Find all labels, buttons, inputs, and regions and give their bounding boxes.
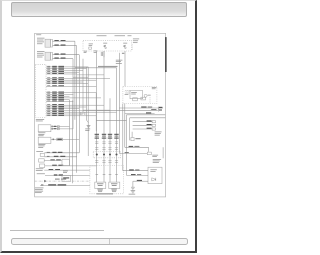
ECM pin row 20 wire — [46, 109, 110, 111]
label wire S1 pin1 — [54, 39, 58, 42]
relay RLY2 box — [38, 137, 51, 143]
ground G101 lead — [86, 120, 88, 123]
wire S2 pin1 — [53, 53, 80, 55]
ECM pin row 18 labels — [47, 105, 50, 108]
connector pair 3b — [108, 147, 111, 149]
connector E1 label — [36, 33, 41, 36]
relay RLY1 wire B — [51, 128, 73, 130]
ECM pin row 16 wire — [46, 100, 74, 102]
wire into valve B — [127, 174, 149, 176]
ECM pin row 15 wire — [46, 98, 70, 100]
fuse F1 — [103, 42, 107, 45]
wire trunk V1 — [74, 41, 76, 120]
injector feed V inj3 — [109, 98, 111, 182]
right box inner — [130, 117, 166, 119]
ECM pin row 5 labels — [47, 72, 50, 75]
junction label C101 — [116, 59, 123, 62]
check valve text — [150, 168, 156, 171]
wire trunk V4 — [72, 58, 74, 128]
injector wire label 2 — [102, 134, 106, 135]
right box row 3 — [133, 128, 153, 130]
splice band — [98, 66, 118, 67]
splice dot 2 — [103, 153, 105, 155]
wire to C567 A — [119, 107, 163, 109]
dash-dot row — [35, 180, 90, 182]
fuel pump box — [130, 90, 143, 98]
ECM pin row 9 labels — [47, 81, 50, 84]
fuel pump box label — [152, 86, 157, 89]
wire cross H4 — [83, 109, 110, 111]
pin tag a — [80, 112, 83, 115]
pump symbol — [144, 94, 147, 97]
connector pair 2b — [102, 147, 105, 149]
drop V x122 — [122, 103, 124, 170]
ECM pin row 16 labels — [47, 99, 50, 102]
check valve symbol — [152, 178, 156, 181]
ECM pin row 10 labels — [47, 84, 50, 87]
component K3 wire — [44, 169, 90, 171]
ECM pin row 2 labels — [47, 66, 50, 69]
connector pair 4b — [115, 147, 118, 149]
ECM pin row 10 wire — [46, 85, 96, 87]
right box outer — [127, 114, 166, 116]
ECM pin row 1 labels — [47, 65, 50, 68]
injector INJ34 symbol — [112, 188, 117, 191]
wire into valve A — [123, 169, 148, 171]
component M1 label — [63, 169, 68, 172]
component K2 wire — [45, 165, 97, 167]
ECM pin row 7 labels — [47, 78, 50, 81]
label wire S2 pin2 — [54, 56, 58, 59]
wire trunk V8 — [69, 99, 71, 165]
component M1 box — [62, 159, 69, 165]
wire mid right A — [125, 146, 149, 148]
component K1 wire — [44, 159, 62, 161]
wire mid right B — [119, 152, 147, 154]
wire trunk V6 — [85, 67, 87, 120]
row PNK wire — [37, 172, 45, 175]
bottom right label — [153, 158, 161, 161]
ECM dashed box — [35, 63, 46, 65]
injector feed V inj1 — [96, 51, 98, 182]
injector feed V inj4 — [116, 68, 118, 182]
right box row 2 — [133, 124, 153, 126]
relay RLY1 wire A — [51, 125, 70, 127]
diagram frame — [35, 33, 166, 197]
bottom scrollbar track — [11, 238, 189, 246]
right box row 1 — [133, 120, 153, 122]
drop V x124 — [124, 103, 126, 147]
pump sub box 2 — [141, 97, 146, 100]
sensor S1 label — [37, 37, 45, 40]
pump dashed inner leader — [149, 97, 151, 103]
injector wire label 4 — [114, 134, 118, 135]
injector minus tick 4 — [115, 173, 118, 175]
sensor S2 connector — [45, 52, 51, 60]
connector pair 4c — [115, 160, 118, 162]
injector minus tick 3 — [109, 173, 112, 175]
ECM pin row 17 wire — [46, 104, 104, 106]
fuse drop V f2 — [124, 51, 126, 86]
connector pair 1c — [95, 160, 98, 162]
ground G202 label — [129, 193, 136, 196]
wire trunk V3 — [78, 54, 80, 152]
ECM pin row 21 wire — [46, 111, 117, 113]
ECM pin row 13 labels — [47, 94, 50, 97]
wire to C567 C — [125, 112, 155, 114]
label under fuse F1 — [103, 51, 105, 57]
wire trunk V9 — [72, 100, 74, 183]
wire S2 pin2 — [53, 57, 74, 59]
ECM pin row 5 wire — [46, 73, 77, 75]
ECM pin row 14 labels — [47, 96, 50, 99]
sensor S1 connector — [45, 39, 51, 47]
ECM pin row 19 wire — [46, 107, 79, 109]
wire trunk V7 — [87, 67, 89, 156]
injector INJ12 box — [95, 182, 106, 188]
wire trunk V2 — [76, 45, 78, 172]
label wire S2 pin1 — [54, 52, 58, 55]
ECM pin row 20 labels — [47, 108, 50, 111]
pump coil symbol — [125, 89, 131, 92]
ECM pin row 9 wire — [46, 82, 88, 84]
wire under valve — [133, 180, 148, 182]
notes text block — [35, 186, 44, 189]
splice strip dashed — [93, 151, 121, 157]
row bottom wire — [40, 184, 90, 186]
switch SW1 label — [36, 150, 43, 153]
right V line — [162, 147, 164, 158]
injector wire label 1 — [95, 134, 99, 135]
wire S1 pin2 — [53, 44, 77, 46]
relay RLY1 box — [38, 125, 51, 132]
ECM pin row 12 wire — [46, 93, 74, 95]
wire cross H3 — [73, 76, 88, 78]
wire S1 pin1 — [53, 40, 75, 42]
ECM pin row 19 labels — [47, 106, 50, 109]
connector pair 2c — [102, 160, 105, 162]
ECM pin row 4 labels — [47, 70, 50, 73]
ECM pin row 4 wire — [46, 71, 79, 73]
ECM pin row 11 labels — [47, 90, 50, 93]
switch SW1 box — [40, 153, 44, 156]
header toolbar bar — [11, 2, 187, 17]
wire trunk V10 — [95, 92, 97, 131]
component K1 — [39, 159, 45, 162]
horizontal rule — [10, 230, 104, 231]
relay RLY1 label — [38, 131, 45, 134]
injector caption — [97, 192, 114, 195]
ECM pin row 14 wire — [46, 97, 101, 99]
ground G202 — [132, 188, 134, 190]
wire to C567 B — [97, 109, 158, 111]
switch SW1 wire B — [44, 156, 76, 158]
splice dot 3 — [109, 153, 111, 155]
injector minus tick 2 — [103, 173, 106, 175]
ECM pin row 3 labels — [47, 68, 50, 71]
injector wire label 3 — [108, 134, 112, 135]
injector dashed box — [90, 165, 123, 193]
fuse box label leader — [131, 44, 133, 51]
ground G101 — [87, 124, 91, 126]
wire cross H2 — [77, 74, 104, 76]
ECM pin row 7 wire — [46, 79, 96, 81]
label under fusebox mid — [94, 49, 98, 52]
component K2 — [40, 164, 45, 167]
injector INJ34 box — [109, 182, 120, 188]
ECM label — [36, 118, 44, 121]
fuel pump dashed box — [123, 86, 157, 103]
pin tag b — [84, 112, 87, 115]
ground G101 label — [85, 127, 90, 130]
check valve box — [148, 167, 162, 183]
right label mid — [155, 130, 162, 133]
injector feed V inj2 — [103, 51, 105, 182]
ECM pin row 12 labels — [47, 92, 50, 95]
ECM pin row 6 labels — [47, 76, 50, 79]
ECM pin row 3 wire — [46, 69, 83, 71]
relay RLY2 wire — [51, 138, 79, 140]
ECM pin row 2 wire — [46, 67, 86, 69]
pump sub box 1 — [133, 98, 138, 101]
fuse box label — [133, 37, 139, 40]
connector pair 1b — [95, 147, 98, 149]
connector pair 3a — [108, 141, 111, 143]
connector pair 1a — [95, 141, 98, 143]
label HOT AT ALL TIMES — [97, 34, 107, 37]
connector pair 3c — [108, 160, 111, 162]
fuse F2 — [123, 42, 127, 45]
wiring diagram — [33, 33, 168, 199]
ECM pin row 17 labels — [47, 103, 50, 106]
ECM pin row 1 wire — [46, 66, 88, 68]
fuse box FB1 dashed — [83, 40, 132, 51]
relay RLY2 label — [38, 143, 45, 146]
ECM pin row 22 labels — [47, 112, 50, 115]
wire cross H5 — [97, 119, 127, 121]
switch SW1 wire — [44, 152, 79, 154]
drop V x119 — [118, 52, 120, 153]
ECM pin row 11 wire — [46, 91, 96, 93]
ECM pin row 8 labels — [47, 80, 50, 83]
sensor S2 label — [37, 50, 45, 53]
injector INJ12 symbol — [98, 188, 103, 191]
component M2 box — [62, 175, 71, 181]
ECM pin row 8 wire — [46, 81, 83, 83]
splice dot 4 — [115, 153, 117, 155]
capacitor ticks — [131, 186, 135, 188]
splice dot 1 — [96, 153, 98, 155]
relay R1 in fuse box — [89, 42, 93, 45]
tick under fuse F2 — [122, 52, 124, 55]
connector pair 2a — [102, 141, 105, 143]
wire cross H1 — [75, 67, 117, 69]
component K3 label — [36, 167, 44, 170]
ECM pin row 22 wire — [46, 113, 83, 115]
ECM pin row 6 wire — [46, 77, 110, 79]
injector minus tick 1 — [96, 173, 99, 175]
ECM pin row 13 wire — [46, 95, 70, 97]
label under fusebox left — [84, 50, 87, 53]
valve symbol — [131, 131, 133, 137]
ECM pin row 23 labels — [47, 114, 50, 117]
ECM pin row 21 labels — [47, 110, 50, 113]
ECM pin row 23 wire — [46, 115, 96, 117]
ECM pin row 18 wire — [46, 106, 86, 108]
ECM pin row 15 labels — [47, 97, 50, 100]
connector pair 4a — [115, 141, 118, 143]
thick bus bar right — [165, 37, 167, 72]
wire trunk V5 — [82, 58, 84, 113]
label wire S1 pin2 — [54, 43, 58, 46]
